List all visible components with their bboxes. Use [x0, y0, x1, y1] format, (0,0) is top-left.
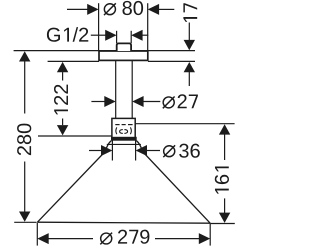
dimension G1/2: extension lines: [116, 31, 118, 43]
dimension O80: extension lines: [98, 3, 100, 51]
label 122 (rotated): [54, 85, 68, 115]
label O279: [100, 230, 149, 245]
dimension O279: dimension line + arrows: [37, 233, 48, 244]
dimension O36: extension lines: [111, 140, 113, 161]
label 17 (rotated): [183, 3, 197, 22]
connector bottom band (dark seal): [111, 137, 137, 141]
connector internal ball-joint detail: [116, 127, 132, 134]
flange bottom extension line right: [148, 60, 195, 62]
connector internal dashed line: [115, 124, 132, 126]
dimension O279: extension lines: [36, 223, 38, 246]
flange (O80 ceiling rosette): [99, 51, 148, 60]
flange bottom extension line left: [48, 60, 99, 62]
dimension 122: dimension line + arrows: [57, 62, 68, 72]
label O36: [163, 144, 200, 158]
dimension 161: extension line top: [135, 123, 234, 125]
dimension 122: extension line bottom: [38, 135, 112, 137]
connector nut body: [112, 118, 135, 137]
label G1/2: [47, 27, 88, 42]
dimension O36: dimension line + arrows: [89, 150, 102, 152]
dimension 280: dimension line + arrows: [19, 51, 30, 61]
dimension 161: extension line bottom: [210, 223, 235, 225]
label 280 (rotated): [17, 124, 31, 156]
spray cone left outline: [37, 141, 111, 223]
dimension 17: leader line + arrows: [188, 23, 190, 42]
dimension O80: dimension line + arrows: [67, 8, 88, 10]
label 161 (rotated): [215, 166, 229, 193]
dimension G1/2: dimension line + converging arrows: [91, 34, 106, 36]
spray cone right outline: [136, 141, 210, 224]
dimension 161: dimension line + arrows: [219, 124, 230, 134]
dimension 280: bottom extension line: [14, 221, 36, 223]
label O27: [163, 94, 198, 108]
pipe: [115, 60, 117, 118]
dimension O27: dimension line + arrows: [91, 101, 105, 103]
ceiling reference line: [14, 50, 195, 52]
label O80: [104, 1, 143, 15]
thread stub G1/2: [117, 43, 131, 51]
spray cone seam line: [107, 143, 141, 145]
spray cone bottom rim: [37, 222, 210, 223]
